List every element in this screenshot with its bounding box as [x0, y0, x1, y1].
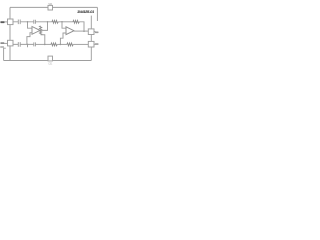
wire cap to resistor lower: [35, 43, 51, 45]
node G junction dot: [60, 44, 62, 46]
op-amp U1b triangle: [66, 27, 74, 35]
wire R4 to right box: [73, 43, 88, 45]
node C junction dot: [61, 21, 63, 23]
wire noninverting input op-amp 2: [62, 22, 66, 28]
wire IC pin lead down from label box: [90, 16, 92, 29]
wire R1 to R2: [58, 21, 73, 23]
wire top row segment: [13, 21, 34, 23]
capacitor C5 (box on bottom rail): [48, 56, 53, 61]
svg-text:VR: VR: [48, 2, 52, 6]
wire below lower left box: [9, 46, 11, 61]
wire between right boxes: [90, 35, 92, 42]
resistor VR1 (box on top rail): [48, 5, 53, 10]
resistor R2 zigzag (top row): [73, 20, 79, 23]
wire between left boxes: [9, 25, 11, 41]
node B junction dot: [47, 21, 49, 23]
wire output op-amp 2: [74, 30, 88, 32]
wire ground left drop: [4, 48, 6, 60]
terminal label GND (left bottom): [0, 46, 4, 48]
terminal box J1 (upper left): [8, 19, 14, 25]
wire stub below node E: [27, 44, 29, 47]
svg-text:C51: C51: [48, 63, 53, 65]
wire inverting input feedback op-amp 1: [27, 33, 32, 45]
wire below box J4 to bottom rail: [90, 47, 92, 61]
wire box J4 to pin: [94, 43, 95, 45]
terminal label IN2 (left lower): [0, 42, 4, 44]
op-amp U1a triangle: [32, 27, 40, 35]
node E junction dot: [27, 44, 29, 46]
wire noninverting input op-amp 1: [28, 22, 33, 28]
wire pin1 to box: [4, 21, 7, 23]
capacitor C4 plates (bottom row): [34, 42, 36, 46]
wire R2 to corner down: [79, 22, 84, 31]
wire inverting input feedback op-amp 2: [60, 33, 66, 44]
resistor R5 vertical zigzag (feedback 1): [40, 26, 42, 35]
wire left vertical bus: [9, 7, 11, 19]
terminal box J4 (lower right): [88, 41, 94, 47]
wire top rail: [10, 6, 97, 8]
resistor R1 zigzag (top row): [52, 20, 58, 23]
terminal label IN1 (left upper): [0, 21, 4, 23]
wire R3 to R4: [57, 43, 67, 45]
wire pin2 to lower box: [4, 42, 7, 44]
wire box J3 to pin: [94, 31, 95, 33]
svg-text:1N4185-01: 1N4185-01: [77, 9, 95, 14]
node A junction dot: [27, 21, 29, 23]
capacitor C1 plates (upper row): [18, 20, 20, 25]
terminal label OUT2 (right lower): [95, 43, 99, 45]
terminal label OUT1 (right upper): [95, 32, 99, 34]
terminal box J3 (upper right): [88, 29, 94, 35]
wire right edge drop: [96, 7, 98, 21]
resistor R3 zigzag (bottom row): [51, 43, 57, 46]
wire output op-amp 1 up to top row: [40, 22, 48, 31]
wire bottom ground rail: [4, 60, 92, 62]
resistor R4 zigzag (bottom row): [67, 43, 73, 46]
wire bottom row segments: [13, 43, 34, 45]
wire feedback 1 to bottom row: [41, 35, 45, 45]
capacitor C3 plates (lower row): [18, 42, 20, 47]
wire cap to resistor: [35, 21, 52, 23]
node D junction dot: [83, 30, 85, 32]
terminal box J2 (lower left): [8, 40, 14, 46]
node F junction dot: [44, 44, 46, 46]
capacitor C2 plates (top row): [34, 20, 36, 24]
